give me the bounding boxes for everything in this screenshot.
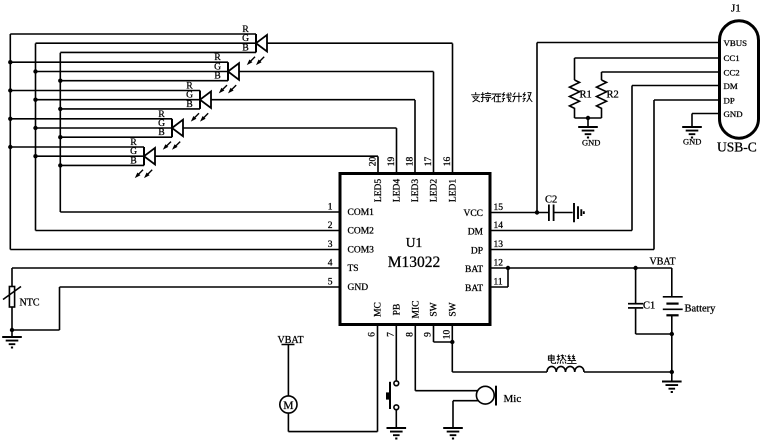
svg-text:B: B — [158, 128, 164, 138]
svg-text:1: 1 — [328, 203, 333, 213]
svg-text:MIC: MIC — [411, 301, 421, 319]
svg-text:B: B — [214, 72, 220, 82]
svg-text:DM: DM — [724, 81, 738, 91]
svg-text:B: B — [186, 100, 192, 110]
svg-text:LED5: LED5 — [374, 179, 384, 202]
svg-text:BAT: BAT — [465, 284, 483, 294]
svg-text:VCC: VCC — [463, 209, 483, 219]
svg-text:9: 9 — [424, 332, 434, 337]
svg-text:M: M — [283, 400, 293, 412]
svg-text:U1: U1 — [406, 235, 423, 250]
svg-text:19: 19 — [387, 157, 397, 167]
svg-text:SW: SW — [448, 302, 458, 316]
svg-text:3: 3 — [328, 240, 333, 250]
svg-text:17: 17 — [424, 157, 434, 167]
svg-text:5: 5 — [328, 278, 333, 288]
svg-text:COM2: COM2 — [348, 227, 375, 237]
svg-text:C2: C2 — [545, 195, 557, 206]
svg-text:MC: MC — [374, 302, 384, 317]
svg-text:6: 6 — [368, 332, 378, 337]
svg-text:C1: C1 — [643, 301, 655, 312]
svg-text:12: 12 — [494, 259, 504, 269]
svg-text:B: B — [242, 43, 248, 53]
svg-text:TS: TS — [348, 264, 359, 274]
svg-text:14: 14 — [494, 221, 504, 231]
svg-text:BAT: BAT — [465, 265, 483, 275]
svg-text:USB-C: USB-C — [717, 140, 757, 155]
svg-text:18: 18 — [406, 157, 416, 167]
svg-text:PB: PB — [392, 304, 402, 316]
svg-text:LED4: LED4 — [393, 179, 403, 202]
svg-text:R1: R1 — [580, 90, 592, 101]
svg-text:15: 15 — [494, 203, 504, 213]
svg-text:10: 10 — [442, 330, 452, 340]
svg-text:4: 4 — [328, 259, 333, 269]
svg-text:CC1: CC1 — [724, 53, 740, 63]
svg-text:11: 11 — [494, 278, 503, 288]
svg-text:B: B — [130, 156, 136, 166]
svg-text:NTC: NTC — [20, 298, 40, 309]
svg-text:16: 16 — [443, 157, 453, 167]
svg-text:VBAT: VBAT — [650, 257, 676, 268]
svg-text:CC2: CC2 — [724, 68, 740, 78]
svg-text:GND: GND — [582, 138, 600, 148]
svg-text:SW: SW — [430, 302, 440, 316]
svg-text:LED1: LED1 — [449, 179, 459, 202]
svg-text:GND: GND — [348, 283, 369, 293]
svg-text:R2: R2 — [607, 90, 619, 101]
svg-text:GND: GND — [724, 109, 743, 119]
svg-text:LED2: LED2 — [430, 179, 440, 202]
svg-text:LED3: LED3 — [411, 179, 421, 202]
svg-text:DP: DP — [471, 247, 483, 257]
svg-text:J1: J1 — [731, 3, 741, 15]
svg-text:M13022: M13022 — [388, 254, 441, 271]
svg-text:COM1: COM1 — [348, 208, 375, 218]
svg-text:GND: GND — [683, 137, 701, 147]
svg-text:DM: DM — [468, 228, 484, 238]
svg-text:7: 7 — [386, 332, 396, 337]
svg-text:13: 13 — [494, 240, 504, 250]
svg-text:8: 8 — [405, 332, 415, 337]
svg-text:DP: DP — [724, 96, 735, 106]
svg-text:20: 20 — [369, 157, 379, 167]
svg-text:COM3: COM3 — [348, 246, 375, 256]
svg-text:2: 2 — [328, 221, 333, 231]
svg-text:Mic: Mic — [504, 393, 522, 405]
svg-text:Battery: Battery — [685, 304, 717, 315]
svg-text:VBUS: VBUS — [724, 38, 748, 48]
